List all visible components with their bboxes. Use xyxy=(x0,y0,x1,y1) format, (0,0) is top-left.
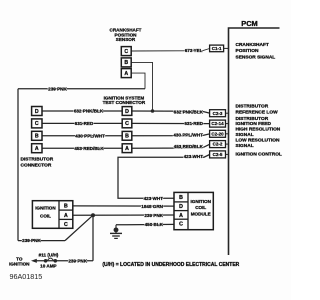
ignition coil module box xyxy=(174,192,213,229)
svg-text:239 PNK: 239 PNK xyxy=(68,258,87,263)
svg-text:96A01815: 96A01815 xyxy=(10,272,43,281)
svg-text:423 WHT: 423 WHT xyxy=(184,154,204,159)
svg-text:632 PNK/BLK: 632 PNK/BLK xyxy=(174,109,204,114)
svg-text:C1-1: C1-1 xyxy=(212,46,222,51)
svg-text:B: B xyxy=(35,134,39,140)
svg-text:B: B xyxy=(64,204,68,210)
wire fuse row horizontal xyxy=(34,260,93,262)
wire label 239 PNK top xyxy=(48,86,67,91)
svg-text:(U/H) = LOCATED IN UNDERHOOD E: (U/H) = LOCATED IN UNDERHOOD ELECTRICAL … xyxy=(102,262,239,268)
junction dot on 239 PNK coil wire xyxy=(91,213,95,217)
svg-text:CRANKSHAFT: CRANKSHAFT xyxy=(236,42,269,48)
wire label 632 PNK/BLK left xyxy=(74,109,104,114)
PCM pin C2-5 xyxy=(210,151,229,158)
svg-text:COIL: COIL xyxy=(40,214,51,219)
ignition system test connector pin C xyxy=(122,119,132,128)
svg-text:631 RED: 631 RED xyxy=(184,121,203,126)
svg-text:COIL: COIL xyxy=(195,205,206,210)
svg-text:10 AMP: 10 AMP xyxy=(40,263,56,268)
PCM signal label low resolution signal xyxy=(236,138,281,149)
svg-text:A: A xyxy=(35,146,39,152)
svg-text:SIGNAL: SIGNAL xyxy=(236,132,254,138)
svg-text:C: C xyxy=(124,49,128,55)
svg-text:LOW RESOLUTION: LOW RESOLUTION xyxy=(236,138,281,144)
PCM signal label distributor reference low xyxy=(236,104,279,116)
svg-text:430 PPL/WHT: 430 PPL/WHT xyxy=(173,133,203,138)
PCM pin C2-14 xyxy=(210,120,229,127)
PCM pin C2-20 xyxy=(210,130,229,137)
wire label 239 PNK bottom left xyxy=(22,238,41,243)
distributor connector pin A xyxy=(32,144,42,153)
svg-text:MODULE: MODULE xyxy=(191,211,211,216)
svg-text:TEST CONNECTOR: TEST CONNECTOR xyxy=(103,100,146,105)
wire 239 PNK left vertical xyxy=(17,89,19,241)
svg-text:A: A xyxy=(64,213,68,219)
fuse label #11 (U/H) xyxy=(39,252,59,257)
svg-text:PCM: PCM xyxy=(241,19,257,28)
svg-text:430 PPL/WHT: 430 PPL/WHT xyxy=(75,133,105,138)
wire label 453 RED/BLK right xyxy=(174,144,204,149)
CKP sensor pin C xyxy=(121,47,131,56)
svg-text:B: B xyxy=(125,134,129,140)
ignition system test connector pin A xyxy=(122,144,132,153)
svg-text:C: C xyxy=(125,121,129,127)
svg-text:C: C xyxy=(35,121,39,127)
svg-text:631 RED: 631 RED xyxy=(75,121,94,126)
wire 673 YEL CKP pin C to C1-1 xyxy=(131,49,209,52)
svg-text:REFERENCE LOW: REFERENCE LOW xyxy=(236,110,279,116)
svg-text:SIGNAL: SIGNAL xyxy=(236,143,254,149)
svg-text:453 RED/BLK: 453 RED/BLK xyxy=(174,144,204,149)
to ignition label xyxy=(9,257,30,267)
PCM pin C2-3 xyxy=(210,110,229,117)
distributor connector pin B xyxy=(32,131,42,140)
wire label 632 PNK/BLK right xyxy=(174,109,204,114)
svg-text:A: A xyxy=(179,213,183,219)
svg-text:HIGH RESOLUTION: HIGH RESOLUTION xyxy=(236,127,281,133)
PCM signal label distributor ignition feed xyxy=(236,116,272,127)
wire 631 RED distributor C to test C xyxy=(42,122,122,124)
svg-text:CONNECTOR: CONNECTOR xyxy=(21,163,52,169)
wire label 631 RED left xyxy=(75,121,94,126)
svg-text:239 PNK: 239 PNK xyxy=(22,238,41,243)
svg-text:B: B xyxy=(179,195,183,201)
arrow to ignition xyxy=(31,259,37,263)
wire label 450 BLK module xyxy=(145,222,164,227)
wire 430 PPL/WHT test B to PCM C2-20 xyxy=(132,134,210,136)
wire 453 RED/BLK test A to PCM C2-2 xyxy=(132,144,210,148)
crankshaft position sensor label xyxy=(110,28,142,42)
wire 450 BLK ground to module C xyxy=(116,223,174,225)
svg-text:IGNITION: IGNITION xyxy=(190,199,211,204)
svg-text:450 BLK: 450 BLK xyxy=(145,222,164,227)
fuse #11 10 AMP xyxy=(44,258,57,263)
svg-text:A: A xyxy=(124,71,128,77)
svg-text:A: A xyxy=(125,146,129,152)
wire 239 PNK diagonal branch xyxy=(65,215,93,240)
svg-text:453 RED/BLK: 453 RED/BLK xyxy=(74,146,104,151)
svg-text:IGNITION: IGNITION xyxy=(35,206,56,211)
svg-text:C2-20: C2-20 xyxy=(211,131,224,136)
wire 239 PNK top horizontal xyxy=(18,88,145,90)
wire 430 PPL/WHT distributor B to test B xyxy=(42,135,122,137)
wire label 423 WHT module xyxy=(144,196,164,201)
wire 632 PNK/BLK distributor D to test D xyxy=(42,110,122,112)
svg-text:SENSOR SIGNAL: SENSOR SIGNAL xyxy=(236,54,276,60)
note U/H located in underhood electrical center xyxy=(102,262,239,268)
distributor connector pin D xyxy=(32,107,42,116)
PCM signal label high resolution signal xyxy=(236,127,281,138)
svg-text:D: D xyxy=(35,109,39,115)
wire 239 PNK bottom horizontal xyxy=(18,240,65,242)
svg-text:SENSOR: SENSOR xyxy=(116,37,136,42)
CKP sensor pin A xyxy=(121,69,131,78)
svg-text:D: D xyxy=(179,204,183,210)
ignition system test connector pin D xyxy=(122,107,132,116)
PCM signal label crankshaft position sensor signal xyxy=(236,42,276,60)
PCM pin C1-1 xyxy=(210,45,229,52)
svg-text:C2-5: C2-5 xyxy=(213,152,223,157)
svg-text:C2-14: C2-14 xyxy=(211,121,224,126)
wire 632 PNK/BLK test D to PCM C2-3 xyxy=(132,111,210,113)
wire label 239 PNK module xyxy=(144,213,163,218)
svg-text:1848 GRN: 1848 GRN xyxy=(141,204,163,209)
wire label 430 PPL/WHT right xyxy=(173,133,203,138)
wire label 239 PNK fuse row xyxy=(68,258,87,263)
wire CKP pin A to 239 PNK feed xyxy=(131,73,145,89)
wire label 673 YEL xyxy=(185,48,203,53)
svg-text:239 PNK: 239 PNK xyxy=(48,86,67,91)
svg-text:DISTRIBUTOR: DISTRIBUTOR xyxy=(236,104,269,110)
wire label 453 RED/BLK left xyxy=(74,146,104,151)
CKP sensor pin B xyxy=(121,58,131,67)
svg-text:423 WHT: 423 WHT xyxy=(144,196,164,201)
ignition system test connector pin B xyxy=(122,131,132,140)
ignition coil box xyxy=(32,201,72,229)
wire 239 PNK ignition coil A to module A xyxy=(73,214,174,216)
fuse label 10 AMP xyxy=(40,263,56,268)
svg-text:IGNITION CONTROL: IGNITION CONTROL xyxy=(236,152,282,158)
ignition system test connector label xyxy=(103,96,146,106)
svg-text:DISTRIBUTOR: DISTRIBUTOR xyxy=(21,156,54,162)
distributor connector pin C xyxy=(32,119,42,128)
ground G1 xyxy=(110,225,122,239)
wire label 631 RED right xyxy=(184,121,203,126)
svg-text:#11 (U/H): #11 (U/H) xyxy=(39,252,59,257)
svg-text:C: C xyxy=(64,222,68,228)
svg-text:D: D xyxy=(125,109,129,115)
svg-text:239 PNK: 239 PNK xyxy=(144,213,163,218)
wire 1848 GRN ignition coil B to module D xyxy=(73,205,174,207)
wire label 423 WHT right xyxy=(184,154,204,159)
PCM outline xyxy=(229,28,280,255)
wire 631 RED test C to PCM C2-14 xyxy=(132,122,210,124)
svg-text:632 PNK/BLK: 632 PNK/BLK xyxy=(74,109,104,114)
wire label 1848 GRN module xyxy=(141,204,163,209)
svg-text:C: C xyxy=(179,222,183,228)
junction dot on 632 wire xyxy=(151,109,155,113)
svg-text:IGNITION FEED: IGNITION FEED xyxy=(236,121,272,127)
distributor connector label xyxy=(21,156,54,168)
svg-text:C2-2: C2-2 xyxy=(213,142,223,147)
svg-text:POSITION: POSITION xyxy=(236,48,259,54)
wire CKP pin B down to 632 junction xyxy=(131,62,152,111)
PCM signal label ignition control xyxy=(236,152,282,158)
svg-text:B: B xyxy=(124,60,128,66)
svg-text:C2-3: C2-3 xyxy=(213,111,223,116)
wire 423 WHT PCM C2-5 to coil module pin B xyxy=(118,155,210,199)
wire 239 PNK fuse feed vertical xyxy=(92,215,94,261)
wire 453 RED/BLK distributor A to test A xyxy=(42,147,122,149)
wire label 430 PPL/WHT left xyxy=(75,133,105,138)
PCM pin C2-2 xyxy=(210,141,229,148)
svg-text:IGNITION: IGNITION xyxy=(9,262,30,267)
svg-text:673 YEL: 673 YEL xyxy=(185,48,203,53)
